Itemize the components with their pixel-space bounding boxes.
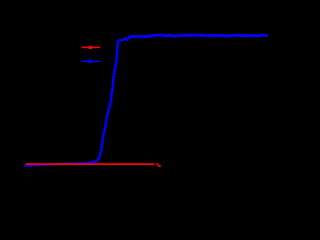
legend blue sample line (82, 60, 101, 62)
blue tail markers (24, 164, 27, 167)
legend blue marker (89, 60, 92, 63)
blue last data point (265, 34, 268, 37)
blue rise markers (90, 161, 93, 164)
red series dark marker (154, 163, 157, 166)
blue data series line (25, 35, 266, 166)
legend red marker (89, 46, 92, 49)
plot background (0, 0, 274, 192)
blue plateau (dense markers) (130, 35, 267, 37)
legend red sample line (82, 46, 101, 48)
blue rise segment line (91, 37, 130, 163)
red data series line (25, 164, 160, 166)
